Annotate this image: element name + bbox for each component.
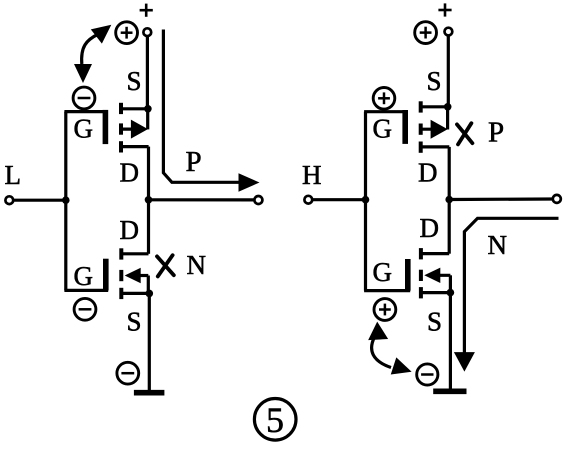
wire output node to NMOS drain (right) [448,200,451,254]
label + (left supply) [140,4,153,17]
pmos Q1 drain plate (left) [120,141,149,152]
junction dot output node (left) [145,196,153,204]
svg-text:G: G [373,257,393,287]
nmos Q4 gate bar (right) [405,259,411,291]
junction dot input node (left) [62,196,70,204]
junction dot output node (right) [445,196,453,204]
pmos Q3 drain plate (right) [419,142,449,153]
nmos Q2 drain plate (left) [120,248,149,259]
supply terminal (left) [143,28,151,36]
charge symbol + circle (left supply) [116,22,138,44]
svg-text:D: D [420,213,440,243]
figure number 5 [254,399,296,441]
svg-text:D: D [120,158,140,188]
wire NMOS source to ground (right) [449,293,452,389]
output terminal (left) [254,196,262,204]
wire NMOS gate lead (right) [364,289,410,292]
nmos Q2 body plate with arrow (left) [121,268,148,294]
svg-text:P: P [186,146,202,178]
svg-text:H: H [302,160,322,190]
X mark pmos off (right) [457,123,472,144]
wire gate bus vertical (left) [64,112,67,291]
charge symbol - circle on PMOS gate (left) [73,87,95,109]
svg-text:G: G [373,114,393,144]
charge symbol + circle (right supply) [415,22,437,44]
svg-text:D: D [120,215,140,245]
nmos Q4 source plate (right) [419,287,450,298]
junction dot NMOS source (left) [146,290,154,298]
X mark nmos off (left) [157,255,174,276]
wire supply to PMOS source (left) [146,36,149,109]
pmos Q3 body plate with arrow (right) [419,108,447,139]
charge symbol - circle on NMOS gate (left) [74,298,96,320]
supply terminal (right) [445,28,453,36]
wire output (right) [449,197,553,201]
svg-text:P: P [488,117,504,149]
curved arrow from - to + (right) [367,321,414,380]
charge symbol - circle near ground (left) [117,362,139,384]
svg-text:S: S [127,66,142,96]
output terminal (right) [553,195,561,203]
wire input L [13,199,66,202]
wire supply to PMOS source (right) [447,35,450,107]
curved arrow from + to - (left) [74,18,117,83]
svg-text:G: G [74,261,94,291]
label + (right supply) [438,3,451,16]
nmos Q2 source plate (left) [120,288,150,299]
svg-text:S: S [427,306,442,336]
charge symbol - circle near ground (right) [417,364,438,385]
wire output (left) [149,198,255,201]
junction dot NMOS source (right) [447,289,455,297]
current arrow P (left) [163,30,259,192]
nmos Q4 drain plate (right) [419,248,449,259]
wire output node to NMOS drain (left) [147,200,150,254]
svg-text:D: D [418,158,438,188]
pmos Q1 source plate (left) [120,103,149,114]
nmos Q4 body plate with arrow (right) [421,268,451,293]
svg-text:N: N [187,250,207,280]
pmos Q1 gate bar (left) [103,110,109,144]
charge symbol + circle on PMOS gate (right) [373,88,395,110]
pmos Q3 source plate (right) [419,101,448,112]
svg-text:S: S [427,66,442,96]
svg-text:5: 5 [266,400,284,440]
wire NMOS source to ground (left) [148,293,151,390]
wire PMOS drain to output node (right) [448,147,451,201]
junction dot PMOS source (right) [444,103,452,111]
svg-text:L: L [5,160,22,190]
input terminal (right) [304,196,312,204]
wire PMOS drain to output node (left) [147,147,150,201]
wire gate bus vertical (right) [364,112,367,291]
svg-text:S: S [127,306,142,336]
wire PMOS gate lead (right) [364,110,407,113]
pmos Q1 body plate with arrow (left) [120,110,148,139]
ground (left) [134,390,165,396]
svg-text:G: G [74,114,94,144]
wire PMOS gate lead (left) [64,110,108,113]
junction dot input node (right) [362,196,370,204]
wire NMOS gate lead (left) [64,289,108,292]
junction dot PMOS source (left) [144,105,152,113]
input terminal (left) [5,196,13,204]
svg-text:N: N [488,230,508,260]
current arrow N (right) [454,218,559,371]
ground (right) [433,388,466,394]
wire input H [312,198,366,201]
charge symbol + circle on NMOS gate (right) [374,299,396,321]
pmos Q3 gate bar (right) [402,110,408,144]
nmos Q2 gate bar (left) [103,259,109,291]
